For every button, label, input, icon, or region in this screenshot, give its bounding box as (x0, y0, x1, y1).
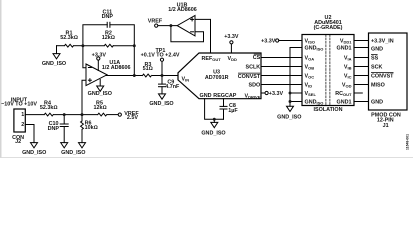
svg-text:VIB: VIB (344, 64, 352, 70)
svg-text:+3.3V_IN: +3.3V_IN (371, 38, 394, 44)
wire U2 GNDISO pin2 (290, 48, 302, 107)
svg-text:VDD: VDD (228, 56, 237, 62)
svg-text:CONVST: CONVST (371, 73, 394, 79)
svg-text:+3.3V: +3.3V (261, 38, 276, 44)
svg-text:VIA: VIA (344, 55, 352, 61)
ground GND_ISO under R1 (53, 54, 60, 59)
node TP1 C9 junction (161, 74, 164, 77)
svg-text:+3.3V: +3.3V (92, 52, 107, 58)
resistor R2 (104, 44, 113, 47)
resistor R4 (44, 113, 53, 116)
svg-text:GND: GND (371, 46, 383, 52)
U2 pin labels left (305, 38, 324, 105)
terminal VREF (155, 24, 158, 27)
svg-text:REGCAP: REGCAP (213, 93, 236, 99)
svg-text:GND_ISO: GND_ISO (277, 114, 301, 120)
terminal TP1 (160, 58, 163, 61)
wire GND1 bottom to J1 (354, 101, 369, 103)
node ADC gnd junction (213, 118, 216, 121)
wire noninverting input (82, 80, 86, 114)
resistor R3 (143, 74, 152, 77)
wire J2 pin2 to gnd (25, 125, 34, 143)
svg-text:REFOUT: REFOUT (202, 56, 222, 62)
ground GND_ISO under C10 (61, 143, 68, 148)
wire R1 rail to inverting node (57, 45, 65, 47)
node inverting junction (81, 44, 84, 47)
svg-text:51Ω: 51Ω (143, 66, 153, 72)
svg-text:CS: CS (253, 55, 261, 61)
svg-text:ISOLATION: ISOLATION (314, 107, 343, 113)
svg-text:VOB: VOB (305, 64, 315, 70)
wire U2 GNDISO pin8 tie (290, 101, 302, 103)
wire U1B plus input from REFOUT (195, 19, 211, 53)
svg-text:VDD1: VDD1 (340, 38, 352, 44)
J1 pin labels (371, 38, 394, 105)
capacitor C9 (161, 76, 163, 85)
svg-text:1/2 AD8606: 1/2 AD8606 (168, 7, 197, 13)
wire R2 rail (83, 45, 104, 47)
svg-text:J1: J1 (383, 123, 389, 129)
wire SCLK (261, 66, 302, 68)
svg-text:DNP: DNP (48, 126, 60, 132)
svg-text:VISO: VISO (305, 38, 316, 44)
wire U1B feedback loop (171, 26, 204, 42)
svg-text:VID: VID (305, 82, 313, 88)
node A attenuator junction (81, 113, 84, 116)
wire CS (261, 57, 302, 59)
svg-text:RCOUT: RCOUT (335, 91, 352, 97)
wire J2 pin1 to R4 (25, 114, 44, 116)
svg-text:12kΩ: 12kΩ (94, 105, 107, 111)
svg-text:VOA: VOA (305, 55, 315, 61)
svg-text:10kΩ: 10kΩ (85, 125, 98, 131)
wire VIB SCK (354, 66, 369, 68)
wire R3 to ADC VIN (153, 75, 179, 77)
op-amp U1A (86, 64, 107, 86)
wire U2 VSEL tie (290, 92, 302, 94)
isolator U2 ADuM5401 outline (302, 35, 354, 106)
svg-text:GND1: GND1 (337, 45, 352, 51)
wire VIA SS (354, 57, 369, 59)
svg-text:1/2 AD8606: 1/2 AD8606 (102, 65, 131, 71)
overline CONVST J1 (371, 72, 394, 74)
wire feedback to output (133, 46, 135, 76)
ground GND_ISO under U1A (97, 86, 104, 91)
resistor R6 vertical (81, 115, 83, 121)
capacitor C11 (106, 22, 108, 27)
svg-text:GND_ISO: GND_ISO (42, 61, 66, 67)
wire U1A gnd stub (99, 80, 101, 87)
overline CONVST (238, 72, 260, 74)
wire VDD1 to J1 (354, 40, 369, 42)
wire inverting input (83, 46, 86, 68)
wire U1A output (107, 75, 143, 77)
wire R1 left leg down (56, 46, 58, 54)
svg-text:SCLK: SCLK (246, 65, 261, 71)
svg-text:VSEL: VSEL (305, 91, 317, 97)
svg-text:GND1: GND1 (337, 99, 352, 105)
node feedback right junction (133, 44, 136, 47)
svg-text:4.7nF: 4.7nF (165, 84, 180, 90)
overline CS (254, 53, 260, 55)
svg-text:+0.1V TO +2.4V: +0.1V TO +2.4V (141, 52, 180, 58)
svg-text:(C-GRADE): (C-GRADE) (314, 25, 343, 31)
svg-text:11648-001: 11648-001 (406, 134, 410, 150)
svg-text:MISO: MISO (371, 82, 385, 88)
svg-text:VOD: VOD (342, 82, 352, 88)
svg-text:VIN: VIN (182, 76, 190, 82)
svg-text:52.3kΩ: 52.3kΩ (60, 35, 78, 41)
op-amp U1B (177, 16, 195, 36)
svg-text:2.5V: 2.5V (127, 115, 138, 121)
svg-text:1µF: 1µF (228, 108, 238, 114)
svg-text:VREF: VREF (148, 19, 163, 25)
ground GND_ISO under U2 (287, 106, 294, 111)
ground GND_ISO under C9 (159, 94, 166, 99)
svg-text:GND_ISO: GND_ISO (22, 150, 46, 156)
svg-text:52.3kΩ: 52.3kΩ (40, 105, 58, 111)
svg-text:VOC: VOC (305, 73, 315, 79)
node U1A output junction (133, 74, 136, 77)
resistor R5 (98, 113, 107, 116)
wire SDO (261, 84, 302, 86)
svg-text:SDO: SDO (249, 82, 261, 88)
node C10 junction (63, 113, 66, 116)
svg-text:SS: SS (371, 55, 379, 61)
svg-text:1: 1 (21, 112, 24, 118)
ground GND_ISO under R6 (79, 143, 86, 148)
svg-text:CONVST: CONVST (238, 74, 261, 80)
ground GND_ISO under ADC (211, 122, 218, 127)
wire VDRIVE to +3.3V (261, 92, 265, 94)
wire gnd stub under C8 rail (213, 119, 215, 122)
isolation barrier dashed lines (325, 35, 327, 106)
svg-text:GND_ISO: GND_ISO (88, 91, 112, 97)
svg-text:VDRIVE: VDRIVE (245, 94, 261, 100)
svg-text:GND_ISO: GND_ISO (201, 131, 225, 137)
terminal +3.3V VDRIVE (265, 91, 268, 94)
svg-text:−10V TO +10V: −10V TO +10V (1, 101, 37, 107)
wire VIC CONVST (354, 75, 369, 77)
wire VISO supply (279, 40, 302, 42)
terminal +3.3V U1A (97, 57, 100, 60)
junction dots (63, 24, 292, 121)
wire VDD supply stub (230, 44, 232, 53)
svg-text:12kΩ: 12kΩ (102, 35, 115, 41)
wire VOD MISO (354, 84, 369, 86)
svg-text:VIC: VIC (344, 73, 352, 79)
svg-text:SCK: SCK (371, 64, 382, 70)
svg-text:GND: GND (200, 93, 212, 99)
svg-text:J2: J2 (15, 139, 21, 145)
terminal +3.3V to U2 VISO (276, 39, 279, 42)
terminal +3.3V ADC VDD (230, 41, 233, 44)
svg-text:AD7091R: AD7091R (205, 75, 229, 81)
node U1B output junction (169, 24, 172, 27)
page edge line bottom (0, 156, 413, 158)
svg-text:2: 2 (21, 122, 24, 128)
node GNDISO junction (289, 100, 292, 103)
wire R5 to VREF terminal (108, 114, 119, 116)
terminal VREF 2.5V (118, 113, 121, 116)
overline SS J1 (371, 54, 378, 56)
wire ADC GND pin down (205, 99, 224, 120)
connector J2 outline (14, 109, 25, 132)
page edge line left (0, 0, 2, 158)
svg-text:+3.3V: +3.3V (269, 91, 284, 97)
svg-text:GND_ISO: GND_ISO (61, 150, 85, 156)
wire RCOUT stub (354, 92, 362, 94)
capacitor C8 on REGCAP (223, 99, 225, 107)
wire R4 to node A (54, 114, 98, 116)
svg-text:+3.3V: +3.3V (224, 34, 239, 40)
resistor R1 (65, 44, 74, 47)
ADC U3 AD7091R outline (178, 53, 261, 99)
wire U1A +3.3V supply stub (97, 60, 99, 70)
U2 pin labels right (335, 38, 352, 105)
wire TP1 stub (161, 61, 163, 75)
node VSEL junction (289, 92, 292, 95)
svg-text:DNP: DNP (102, 14, 114, 20)
capacitor C10 (63, 115, 65, 124)
ground GND_ISO under J2 (31, 143, 38, 148)
wire GND1 to J1 (354, 47, 369, 49)
wire C11 top rail (83, 25, 107, 46)
svg-text:GNDISO: GNDISO (305, 99, 324, 105)
svg-text:GND: GND (371, 99, 383, 105)
wire U1B output to VREF terminal (158, 25, 177, 27)
svg-text:GNDISO: GNDISO (305, 45, 324, 51)
wire CONVST (261, 75, 302, 77)
connector J1 PMOD outline (369, 33, 408, 110)
svg-text:GND_ISO: GND_ISO (149, 101, 173, 107)
